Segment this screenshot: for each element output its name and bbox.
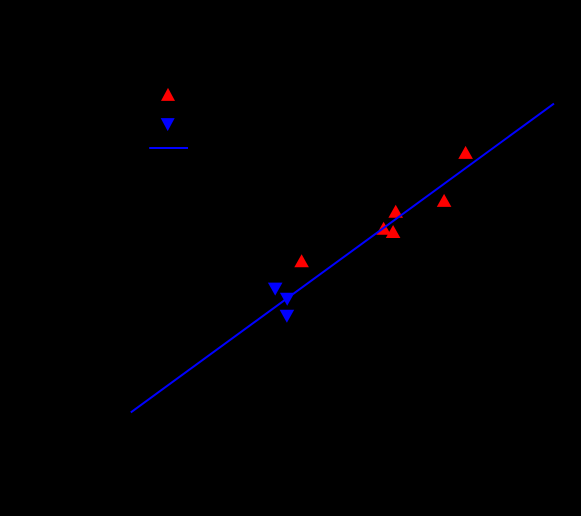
data point: red up triangle 4 [376,222,391,235]
legend marker: blue line sample [149,147,188,149]
data point: red up triangle 1 [458,146,473,159]
data point: red up triangle 2 [437,194,452,207]
data point: blue down triangle 2 [280,293,295,306]
data point: red up triangle 5 [386,225,401,238]
data point: red up triangle 6 [294,254,309,267]
data point: blue down triangle 1 [268,283,283,296]
regression line [131,104,554,413]
legend marker: red up triangle [161,88,175,101]
legend marker: blue down triangle [161,118,175,131]
data point: red up triangle 3 [388,205,403,218]
data point: blue down triangle 3 [280,310,295,323]
